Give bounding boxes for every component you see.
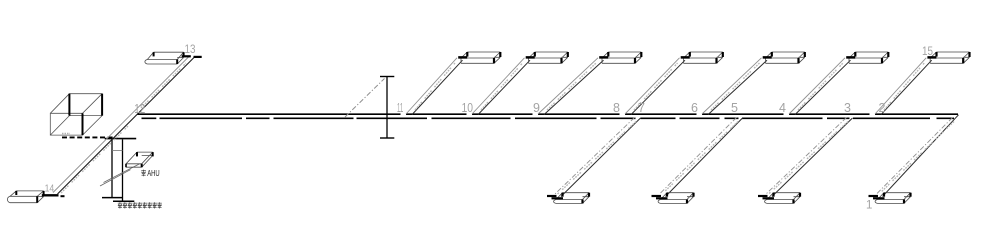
svg-text:2: 2 (879, 101, 886, 115)
branch pipe 6 (702, 58, 767, 115)
branch pipe 5 (660, 118, 743, 197)
svg-text:14: 14 (45, 182, 55, 194)
svg-text:9: 9 (533, 101, 540, 115)
terminal box of branch 7 (547, 193, 589, 204)
terminal box of branch 6 (763, 52, 805, 63)
branch pipe 3 (766, 118, 853, 197)
branch pipe 4 (789, 58, 851, 115)
riser pipe 2 (vertical) (122, 139, 124, 200)
branch pipe 2 (875, 58, 932, 115)
terminal box of branch 1 (869, 193, 911, 204)
branch pipe 9 (538, 58, 604, 115)
terminal box of branch 9 (599, 52, 641, 63)
main pipe bottom line (142, 117, 955, 119)
branch pipe 1 (877, 115, 959, 197)
dashed pipe from cube to junction (62, 136, 114, 138)
svg-text:4: 4 (779, 101, 786, 115)
terminal box 14 (7, 191, 64, 203)
main diagonal pipe (grey) (53, 57, 189, 193)
svg-text:13: 13 (185, 44, 196, 56)
svg-text:11: 11 (397, 101, 403, 115)
terminal box of branch 5 (652, 193, 694, 204)
svg-text:3: 3 (844, 101, 851, 115)
terminal box of branch 8 (681, 52, 723, 63)
terminal box of branch 11 (458, 52, 500, 63)
branch pipe 10 (472, 58, 530, 115)
branch pipe 11 (406, 58, 463, 115)
svg-text:1: 1 (866, 200, 872, 212)
riser marker vertical (380, 77, 394, 139)
riser dash-dot diagonal (345, 79, 385, 118)
svg-text:15: 15 (922, 46, 933, 58)
branch pipe 7 (555, 118, 641, 197)
svg-text:7: 7 (638, 101, 645, 115)
riser 1 end bar (102, 197, 123, 199)
main diagonal pipe (black) (58, 57, 195, 194)
riser cross tick (112, 150, 123, 152)
main pipe top line (138, 113, 959, 115)
terminal box of branch 10 (526, 52, 568, 63)
svg-text:5: 5 (731, 101, 738, 115)
riser pipe 1 (vertical) (111, 139, 113, 197)
junction tee bar (105, 138, 137, 140)
AHU terminal box (126, 152, 153, 167)
svg-text:AHU: AHU (147, 168, 160, 178)
terminal box of branch 2 (927, 52, 969, 63)
svg-text:10: 10 (462, 101, 474, 115)
svg-text:8: 8 (613, 101, 620, 115)
terminal box of branch 4 (846, 52, 888, 63)
tiny marks near dashed pipe (62, 133, 70, 135)
terminal box 13 (145, 52, 202, 64)
riser 2 end bar (113, 200, 134, 202)
svg-text:6: 6 (691, 101, 698, 115)
label: to basement chiller plant room (118, 202, 162, 208)
label: to AHU (141, 168, 159, 178)
pipe to AHU (100, 164, 140, 186)
equipment cube (wireframe box) (50, 94, 102, 135)
branch pipe 8 (625, 58, 685, 115)
terminal box of branch 3 (758, 193, 800, 204)
text marks along main diagonal (61, 126, 128, 193)
